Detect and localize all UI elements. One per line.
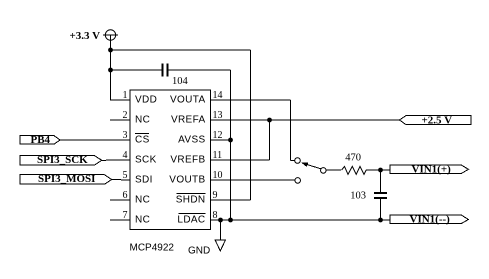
svg-text:VOUTA: VOUTA xyxy=(170,95,205,106)
resistor R1 470 xyxy=(342,166,367,174)
node GND junction 1 xyxy=(218,218,223,223)
wire pin11 VREFB xyxy=(211,159,270,161)
wire from VDD node to capacitor C1 xyxy=(111,69,162,71)
svg-text:AVSS: AVSS xyxy=(178,135,205,146)
node VDD junction 1 xyxy=(108,48,113,53)
power symbol +3.3V xyxy=(103,30,118,41)
wire pin12 AVSS stub xyxy=(211,139,231,141)
wire VDD vertical from power to pin1 xyxy=(110,41,112,101)
wire pin14 VOUTA horizontal xyxy=(211,99,291,101)
wire pin8 LDAC to VIN1(-) xyxy=(211,219,391,221)
wire VOUTA into switch contact xyxy=(291,160,295,162)
svg-text:+2.5 V: +2.5 V xyxy=(422,115,453,127)
svg-text:VREFA: VREFA xyxy=(171,115,206,126)
ground xyxy=(215,240,225,251)
wire capacitor C2 to VIN1(-) net xyxy=(380,199,382,220)
svg-text:SDI: SDI xyxy=(135,175,153,186)
flag VIN1(+) xyxy=(390,163,468,175)
svg-text:GND: GND xyxy=(188,246,210,257)
wire vertical x=230.5 cap to AVSS to LDAC xyxy=(230,70,232,220)
svg-text:SPI3_MOSI: SPI3_MOSI xyxy=(38,173,95,185)
svg-text:7: 7 xyxy=(123,210,128,221)
wire ground drop xyxy=(220,220,222,240)
svg-text:11: 11 xyxy=(213,150,223,161)
svg-text:SCK: SCK xyxy=(135,155,157,166)
wire pin13 VREFA to +2.5V flag xyxy=(211,119,400,121)
svg-text:+3.3 V: +3.3 V xyxy=(70,30,101,42)
svg-text:13: 13 xyxy=(213,110,223,121)
flag PB4 xyxy=(20,134,130,146)
node GND junction 2 xyxy=(228,218,233,223)
wire PB4 to pin3 xyxy=(60,139,130,141)
svg-text:6: 6 xyxy=(123,190,128,201)
node VDD junction 2 xyxy=(108,68,113,73)
node AVSS junction xyxy=(228,138,233,143)
svg-text:MCP4922: MCP4922 xyxy=(130,243,175,254)
svg-text:SPI3_SCK: SPI3_SCK xyxy=(37,154,88,166)
svg-text:9: 9 xyxy=(213,190,218,201)
node +2.5V junction xyxy=(267,118,272,123)
wire switch common to resistor xyxy=(326,169,341,171)
svg-text:CS: CS xyxy=(135,135,150,146)
wire +3.3V to SHDN vertical x=250.5 xyxy=(250,50,252,200)
wire capacitor right to vertical xyxy=(169,69,231,71)
svg-text:14: 14 xyxy=(213,90,223,101)
IC U1 MCP4922 body xyxy=(130,90,211,230)
svg-text:VREFB: VREFB xyxy=(170,155,205,166)
svg-text:VOUTB: VOUTB xyxy=(169,175,205,186)
svg-text:12: 12 xyxy=(213,130,223,141)
svg-text:3: 3 xyxy=(123,130,128,141)
flag +2.5 V xyxy=(400,115,472,127)
svg-text:PB4: PB4 xyxy=(31,134,51,146)
svg-text:1: 1 xyxy=(123,90,128,101)
svg-text:NC: NC xyxy=(135,115,150,126)
svg-text:104: 104 xyxy=(172,76,189,87)
wire SPI3_MOSI to pin5 xyxy=(112,179,130,182)
capacitor C2 103 xyxy=(374,193,387,198)
node VIN1(+) junction xyxy=(378,168,383,173)
flag VIN1(-) xyxy=(390,213,468,225)
svg-text:10: 10 xyxy=(213,170,223,181)
svg-text:VIN1(+): VIN1(+) xyxy=(412,163,452,175)
svg-text:8: 8 xyxy=(213,210,218,221)
wire pin7 NC stub xyxy=(110,219,130,221)
switch SW1 xyxy=(295,158,326,184)
wire pin6 NC stub xyxy=(110,199,130,201)
wire pin1 VDD stub xyxy=(110,99,130,101)
wire +3.3V to SHDN horizontal y=50 xyxy=(111,49,251,51)
wire VIN1(+) node down to capacitor C2 xyxy=(380,170,382,192)
wire SPI3_SCK to pin4 xyxy=(102,159,130,161)
svg-text:2: 2 xyxy=(123,110,128,121)
wire pin2 NC stub xyxy=(110,119,130,121)
svg-text:4: 4 xyxy=(123,150,128,161)
svg-text:VIN1(--): VIN1(--) xyxy=(410,213,451,225)
svg-text:NC: NC xyxy=(135,195,150,206)
capacitor C1 104 xyxy=(163,64,168,77)
svg-text:VDD: VDD xyxy=(135,95,157,106)
wire pin9 SHDN xyxy=(211,199,251,201)
wire +2.5V vertical x=269.5 xyxy=(269,120,271,160)
svg-text:SHDN: SHDN xyxy=(176,195,206,206)
svg-text:103: 103 xyxy=(350,190,366,201)
wire VOUTA vertical to switch xyxy=(290,100,292,161)
flag SPI3_SCK xyxy=(20,154,130,166)
node VIN1(-) junction xyxy=(378,218,383,223)
svg-text:LDAC: LDAC xyxy=(177,215,205,226)
flag SPI3_MOSI xyxy=(20,173,130,185)
switch arm arrow xyxy=(306,164,321,169)
svg-text:470: 470 xyxy=(345,153,361,164)
wire resistor to VIN1(+) flag xyxy=(366,169,390,171)
svg-text:NC: NC xyxy=(135,215,150,226)
wire pin10 VOUTB to switch contact xyxy=(211,179,295,181)
